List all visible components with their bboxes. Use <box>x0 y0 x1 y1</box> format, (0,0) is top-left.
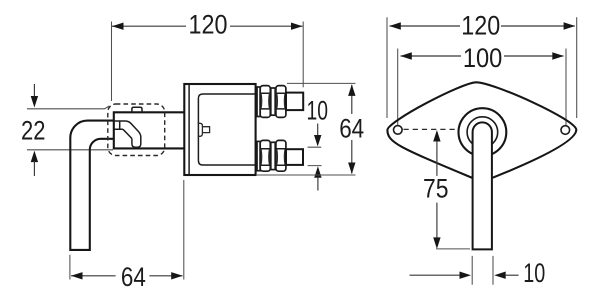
dimension 64 (bottom) extension lines <box>70 180 184 280</box>
svg-text:10: 10 <box>523 258 545 288</box>
dimension 22 lower arrow <box>31 151 38 163</box>
top terminal nut 1 <box>260 86 270 118</box>
svg-text:120: 120 <box>461 11 500 41</box>
body outer rectangle <box>184 84 255 175</box>
dimension 100 left arrowhead <box>400 52 412 59</box>
dimension 75 upper arrow <box>433 130 440 142</box>
rivet bump on boss top <box>132 107 142 112</box>
dimension 10 (terminal) upper arrow <box>317 124 319 137</box>
dimension 100 extension lines <box>398 49 566 129</box>
top terminal washer 1 <box>257 87 260 117</box>
dimension 10 (terminal) lower arrow <box>314 166 321 178</box>
dashed centre line <box>404 128 459 130</box>
dimension 120 (left view) extension line left <box>111 22 113 102</box>
dimension 120 (right view) right arrowhead <box>564 22 576 29</box>
latch clip on panel left <box>198 123 203 136</box>
mounting plate (diamond) <box>387 82 576 182</box>
body left inner wall line <box>188 84 190 175</box>
dimension 100 right arrowhead <box>552 52 564 59</box>
dimension 64 (bottom) right arrowhead <box>171 272 183 279</box>
dimension 64 (height) extension lines <box>257 83 356 175</box>
boss outer circle <box>459 108 507 156</box>
top terminal nut 2 <box>276 86 286 118</box>
dimension 64 (height) dimension line <box>351 85 353 174</box>
top terminal washer 2 <box>271 88 275 115</box>
dimension 10 (rod) left line and arrowhead <box>410 274 461 276</box>
removable key inside boss <box>114 121 141 147</box>
svg-text:100: 100 <box>463 43 503 73</box>
bottom terminal washer 2 <box>271 142 275 169</box>
dimension 64 (height) up arrowhead <box>348 84 355 96</box>
dimension 64 (bottom) left arrowhead <box>71 272 83 279</box>
switch boss rectangle <box>114 112 185 148</box>
mounting hole right <box>561 126 570 135</box>
body inner panel <box>198 94 255 165</box>
dimension 22 lower extension line <box>27 149 113 151</box>
dimension 10 (rod) extension lines <box>472 256 493 285</box>
bottom terminal stud <box>286 149 303 165</box>
svg-text:120: 120 <box>189 9 228 39</box>
dimension 120 (right view) extension lines <box>387 17 577 118</box>
svg-text:75: 75 <box>423 174 449 204</box>
dimension 120 (left view) extension line right <box>302 22 304 88</box>
svg-text:10: 10 <box>307 95 329 125</box>
svg-text:22: 22 <box>21 116 46 146</box>
dimension 120 (left view) right arrowhead <box>291 23 303 30</box>
dashed collar outline <box>108 104 165 156</box>
mounting hole left <box>394 126 403 135</box>
dimension 10 (terminal) extension lines <box>308 147 322 165</box>
svg-text:64: 64 <box>121 262 146 292</box>
top terminal stud <box>286 93 303 111</box>
dimension 120 (left view) left arrowhead <box>112 23 124 30</box>
dimension 22 upper extension line <box>27 106 109 109</box>
bottom terminal nut 2 <box>276 140 286 171</box>
svg-text:64: 64 <box>339 113 364 143</box>
bottom terminal washer 1 <box>257 141 260 170</box>
dimension 22 upper arrow <box>33 84 35 97</box>
lever handle <box>70 121 114 250</box>
dimension 75 lower line and arrow <box>436 203 438 239</box>
actuating rod <box>473 122 492 249</box>
dimension 64 (bottom) dimension line <box>71 275 183 277</box>
dimension 75 bottom extension line <box>436 248 470 250</box>
dimension 64 (height) down arrowhead <box>348 163 355 175</box>
bottom terminal nut 1 <box>260 140 270 171</box>
boss inner ring <box>467 117 498 148</box>
dimension 120 (right view) dimension line <box>390 25 575 27</box>
dimension 120 (right view) left arrowhead <box>389 22 401 29</box>
dimension 10 (rod) right arrowhead and line <box>494 272 506 279</box>
dimension 120 (left view) dimension line <box>112 25 303 27</box>
dimension 100 dimension line <box>401 55 564 57</box>
